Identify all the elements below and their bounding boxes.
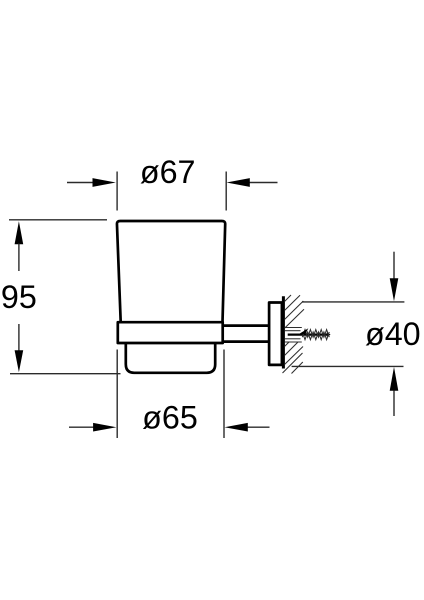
dimension ø65 left arrowhead — [93, 423, 116, 432]
dimension 95 upper arrowhead — [15, 221, 24, 244]
wall hatching top block — [285, 295, 305, 328]
dimension ø65 right arrowhead — [225, 423, 248, 432]
dimension ø65 extension line left — [116, 350, 118, 439]
dimension 95 bottom extension line — [10, 373, 121, 375]
dimension ø67 left arrow line — [67, 182, 98, 184]
anchor collar flare — [297, 328, 309, 335]
svg-text:ø65: ø65 — [142, 400, 198, 436]
dimension 95 lower line segment — [18, 324, 20, 351]
dimension ø67 right arrow line — [245, 182, 278, 184]
glass tumbler upper body — [117, 221, 225, 322]
dimension ø65 right arrow line — [243, 426, 270, 428]
wall anchor plug bottom line — [285, 338, 301, 340]
wall plate flange — [269, 303, 282, 365]
holder ring — [118, 322, 223, 343]
wall surface line — [282, 296, 285, 368]
wall anchor plug top line — [285, 330, 301, 332]
dimension ø67 left arrowhead — [93, 178, 116, 187]
svg-text:ø40: ø40 — [365, 316, 421, 352]
svg-text:95: 95 — [1, 279, 37, 315]
screw tip — [327, 332, 331, 336]
screw shank — [288, 334, 328, 336]
dimension ø40 top extension line — [302, 301, 404, 303]
dimension ø40 bottom extension line — [292, 365, 404, 367]
dimension 95 lower arrowhead — [15, 350, 24, 372]
dimension ø67 right arrowhead — [227, 178, 250, 187]
screw thread lower zigzag — [302, 332, 329, 340]
svg-text:ø67: ø67 — [140, 154, 196, 190]
mounting arm top line — [223, 324, 269, 327]
dimension 95 upper line segment — [18, 244, 20, 272]
screw thread upper zigzag — [302, 330, 329, 338]
glass tumbler lower body — [126, 344, 215, 373]
drilled hole top line — [285, 327, 302, 329]
dimension ø40 upper arrow line — [393, 252, 395, 279]
drilled hole bottom line — [285, 341, 302, 343]
dimension ø65 left arrow line — [69, 426, 95, 428]
dimension ø67 extension line right — [225, 172, 227, 211]
dimension ø40 lower arrowhead — [390, 367, 399, 391]
mounting arm bottom line — [223, 340, 269, 343]
dimension ø67 extension line left — [116, 172, 118, 211]
dimension 95 top extension line — [9, 219, 107, 221]
dimension ø40 upper arrowhead — [390, 278, 399, 301]
dimension ø40 lower arrow line — [393, 391, 395, 417]
wall hatching bottom block — [283, 342, 304, 374]
dimension ø65 extension line right — [223, 350, 225, 439]
